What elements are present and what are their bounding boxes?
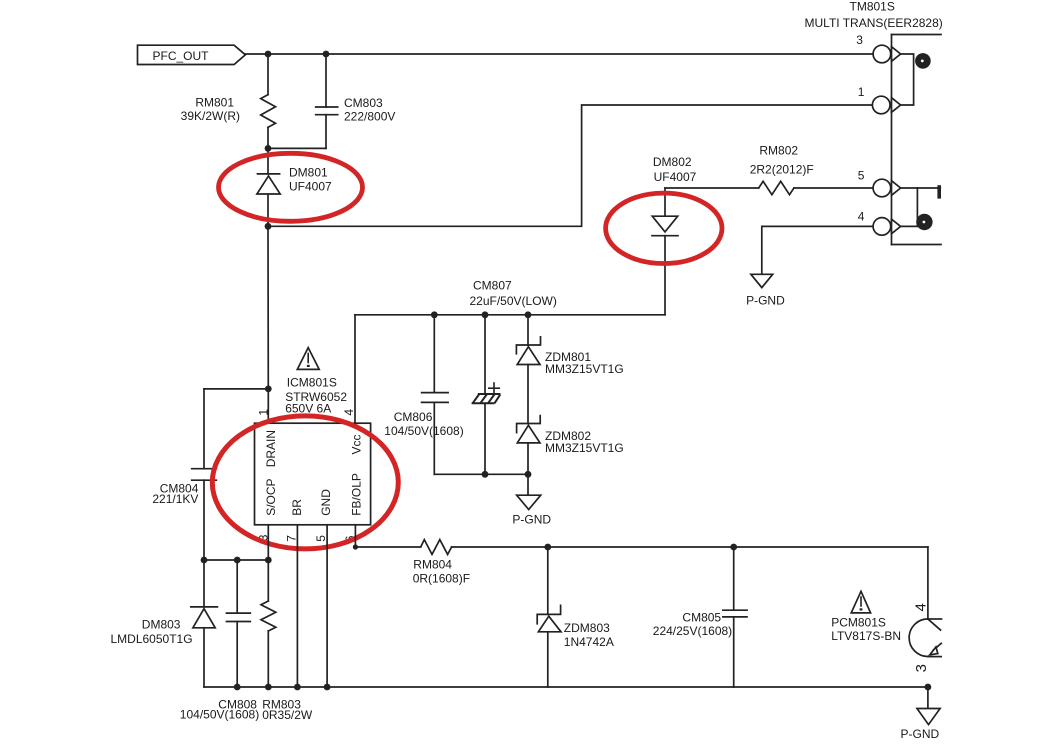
- winding polarity dot top: [915, 53, 931, 69]
- capacitor CM808: [227, 613, 251, 621]
- wire CM807 bottom lead: [484, 404, 486, 475]
- wire DM803 top lead: [203, 560, 205, 607]
- label CM805 value: [653, 611, 732, 638]
- red highlight ellipse around IC pins: [212, 416, 398, 549]
- label ZDM802 value: [545, 429, 624, 455]
- wire IC pin 5 to ground rail: [326, 525, 328, 687]
- svg-text:RM802: RM802: [759, 143, 798, 157]
- junction CM804/DM803: [201, 557, 208, 564]
- svg-text:22uF/50V(LOW): 22uF/50V(LOW): [470, 294, 557, 308]
- svg-text:ZDM803: ZDM803: [564, 621, 610, 635]
- capacitor CM805: [723, 610, 747, 617]
- transformer winding pins 5-4: [901, 188, 918, 226]
- svg-text:4: 4: [912, 603, 929, 611]
- wire RM801 bottom lead: [267, 127, 269, 148]
- junction at RM801 top: [265, 51, 272, 58]
- svg-text:CM806: CM806: [394, 410, 433, 424]
- winding terminal bar right: [937, 185, 941, 198]
- label CM807 value: [470, 279, 557, 309]
- wire CM806 top lead: [433, 315, 435, 393]
- wire ZDM803 top lead: [547, 547, 549, 614]
- svg-text:104/50V(1608): 104/50V(1608): [180, 708, 259, 722]
- junction CM807 bottom: [482, 471, 489, 478]
- resistor RM801: [261, 95, 276, 128]
- label RM802 value: [750, 143, 814, 176]
- svg-text:RM801: RM801: [195, 96, 234, 110]
- wire rail y474: [434, 473, 528, 475]
- wire RM802 to transformer pin 5: [794, 187, 873, 189]
- svg-text:4: 4: [342, 409, 356, 416]
- capacitor CM806: [422, 393, 449, 403]
- svg-text:ICM801S: ICM801S: [287, 375, 337, 389]
- svg-text:GND: GND: [319, 489, 333, 516]
- wire CM804 top lead: [203, 389, 205, 469]
- wire RM801 top lead: [267, 54, 269, 95]
- diode DM803: [191, 607, 218, 628]
- svg-text:UF4007: UF4007: [654, 170, 697, 184]
- junction below DM801: [265, 223, 272, 230]
- wire drain node to CM804: [204, 388, 268, 390]
- junction at DM801 anode node: [265, 145, 272, 152]
- wire node row y560: [204, 559, 268, 561]
- label DM802 value: [653, 155, 697, 184]
- svg-text:MM3Z15VT1G: MM3Z15VT1G: [545, 441, 624, 455]
- svg-text:TM801S: TM801S: [850, 0, 895, 13]
- wire DM802 top lead: [664, 188, 666, 216]
- wire ZDM801 to ZDM802: [527, 365, 529, 424]
- wire CM808 top lead: [236, 560, 238, 613]
- svg-text:1: 1: [858, 85, 865, 99]
- label CM804 value: [152, 482, 198, 506]
- wire IC pin 7 to ground rail: [296, 525, 298, 687]
- zener diode ZDM801: [516, 337, 540, 365]
- svg-text:224/25V(1608): 224/25V(1608): [653, 624, 732, 638]
- resistor RM803: [261, 601, 276, 631]
- red highlight ellipse around DM802: [606, 193, 722, 263]
- svg-text:CM805: CM805: [682, 611, 721, 625]
- wire ZDM802 bottom lead: [527, 443, 529, 474]
- svg-text:DM802: DM802: [653, 155, 692, 169]
- label CM806 value: [384, 410, 463, 438]
- svg-text:LMDL6050T1G: LMDL6050T1G: [111, 632, 193, 646]
- resistor RM804: [421, 540, 452, 555]
- svg-text:221/1KV: 221/1KV: [152, 492, 198, 506]
- red highlight ellipse around DM801: [219, 153, 363, 221]
- wire junction row y148: [268, 147, 326, 149]
- wire from DM801 node to transformer pin 1: [268, 105, 873, 226]
- svg-text:DRAIN: DRAIN: [264, 430, 278, 467]
- junction CM805 top: [730, 544, 737, 551]
- svg-text:FB/OLP: FB/OLP: [350, 473, 364, 516]
- junction CM807 top: [482, 311, 489, 318]
- wire RM803 bottom lead: [267, 631, 269, 687]
- svg-text:5: 5: [858, 168, 865, 182]
- capacitor CM807 polarity plus: [489, 383, 500, 393]
- label TM801S part: [805, 0, 943, 30]
- svg-text:4: 4: [858, 210, 865, 224]
- wire IC pin 4 Vcc lead up: [354, 315, 356, 423]
- transformer winding pins 3-1: [901, 54, 914, 105]
- transformer pin 1 terminal: [872, 96, 900, 114]
- label RM803 value: [262, 697, 313, 722]
- svg-text:1N4742A: 1N4742A: [564, 635, 614, 649]
- label ZDM803 value: [564, 621, 614, 649]
- transformer pin 4 terminal: [873, 218, 900, 236]
- warning symbol for ICM801S: [297, 348, 319, 370]
- label CM803 value: [344, 96, 395, 123]
- wire feedback rail to optocoupler collector: [927, 547, 929, 619]
- svg-text:LTV817S-BN: LTV817S-BN: [831, 629, 901, 643]
- junction CM808 bottom: [234, 684, 241, 691]
- svg-text:DM803: DM803: [142, 618, 181, 632]
- transformer pin 3 terminal: [873, 45, 900, 63]
- svg-text:104/50V(1608): 104/50V(1608): [384, 424, 463, 438]
- junction CM806 top: [431, 311, 438, 318]
- label DM801 value: [289, 165, 332, 193]
- wire IC pin 6 lead: [354, 525, 356, 547]
- svg-text:P-GND: P-GND: [512, 513, 551, 527]
- wire bottom ground rail: [204, 686, 928, 688]
- junction pin3/RM803: [265, 557, 272, 564]
- junction pin7 bottom: [294, 684, 301, 691]
- wire CM803 top lead: [325, 54, 327, 107]
- wire CM804 bottom lead: [203, 480, 205, 560]
- wire DM803 bottom lead: [203, 628, 205, 687]
- junction optocoupler emitter bottom: [925, 684, 932, 691]
- label DM803 value: [111, 618, 193, 646]
- net label PFC_OUT: [138, 45, 246, 64]
- wire DM801 bottom lead: [267, 194, 269, 226]
- svg-text:UF4007: UF4007: [289, 179, 332, 193]
- op-amp U1 IC body ICM801S: [255, 423, 371, 525]
- junction ZDM803 top: [544, 544, 551, 551]
- wire IC pin 3 lead: [267, 525, 269, 560]
- svg-text:S/OCP: S/OCP: [264, 478, 278, 515]
- label PCM801S part: [831, 616, 901, 644]
- svg-text:2R2(2012)F: 2R2(2012)F: [750, 163, 814, 177]
- transformer TM801S core outline: [892, 35, 942, 245]
- ground P-GND under ZDM802: [512, 495, 551, 526]
- ground P-GND bottom right: [901, 709, 941, 741]
- svg-text:P-GND: P-GND: [746, 293, 785, 307]
- wire ZDM803 bottom lead: [547, 632, 549, 687]
- svg-text:RM804: RM804: [413, 557, 452, 571]
- wire CM807 top lead: [484, 315, 486, 394]
- zener diode ZDM802: [517, 416, 541, 443]
- svg-text:BR: BR: [290, 499, 304, 516]
- winding polarity dot bottom: [916, 214, 932, 230]
- junction pin5 bottom: [324, 684, 331, 691]
- svg-text:Vcc: Vcc: [350, 434, 364, 454]
- wire DM802 bottom lead: [664, 236, 666, 315]
- junction CM808 top: [234, 557, 241, 564]
- warning symbol for PCM801S: [851, 591, 870, 613]
- svg-text:650V 6A: 650V 6A: [285, 401, 331, 415]
- wire to P-GND under ZDM802: [527, 474, 529, 495]
- wire IC pin 1 lead: [267, 389, 269, 423]
- svg-text:MM3Z15VT1G: MM3Z15VT1G: [545, 362, 624, 376]
- svg-text:1: 1: [256, 409, 270, 416]
- wire feedback rail y547: [452, 546, 928, 548]
- junction ZDM801 top: [525, 311, 532, 318]
- wire optocoupler to P-GND: [927, 687, 929, 709]
- svg-text:3: 3: [856, 33, 863, 47]
- svg-text:PFC_OUT: PFC_OUT: [153, 49, 210, 63]
- wire DM801 top lead: [267, 148, 269, 174]
- wire Vcc rail y315: [355, 314, 665, 316]
- diode DM801: [257, 174, 280, 194]
- wire top rail PFC_OUT to transformer pin 3: [245, 53, 873, 55]
- resistor RM802: [759, 181, 794, 194]
- svg-text:PCM801S: PCM801S: [831, 616, 886, 630]
- svg-text:222/800V: 222/800V: [344, 110, 395, 124]
- svg-text:3: 3: [913, 664, 930, 672]
- wire transformer pin 4 to ground: [762, 226, 873, 274]
- capacitor CM803: [316, 107, 338, 115]
- svg-text:39K/2W(R): 39K/2W(R): [181, 109, 240, 123]
- wire CM805 top lead: [733, 547, 735, 610]
- svg-text:0R35/2W: 0R35/2W: [262, 708, 313, 722]
- wire DM801 node down to IC drain: [267, 226, 269, 389]
- transformer pin 5 terminal: [873, 179, 900, 197]
- label RM801 value: [181, 96, 240, 124]
- wire DM802 to RM802: [665, 187, 759, 189]
- zener diode ZDM803: [537, 605, 561, 632]
- wire CM805 bottom lead: [733, 617, 735, 687]
- capacitor CM807: [472, 394, 501, 403]
- junction RM803 bottom: [265, 684, 272, 691]
- svg-text:DM801: DM801: [289, 165, 328, 179]
- label CM808 value: [180, 697, 259, 721]
- svg-text:7: 7: [285, 535, 299, 542]
- wire RM803 top lead: [267, 560, 269, 601]
- svg-text:CM807: CM807: [473, 279, 512, 293]
- wire CM803 bottom lead: [325, 115, 327, 149]
- label ICM801S part: [285, 375, 347, 415]
- wire CM806 bottom lead: [433, 402, 435, 474]
- svg-text:MULTI TRANS(EER2828): MULTI TRANS(EER2828): [805, 16, 943, 30]
- svg-text:5: 5: [314, 535, 328, 542]
- wire winding stub right: [917, 187, 940, 189]
- transistor Q1 optocoupler PCM801S: [909, 619, 941, 657]
- svg-text:0R(1608)F: 0R(1608)F: [413, 572, 470, 586]
- junction pin 6 corner: [353, 544, 358, 549]
- svg-text:CM803: CM803: [344, 96, 383, 110]
- junction at drain/CM804 node: [265, 386, 272, 393]
- ground P-GND under transformer pin 4: [746, 274, 785, 307]
- wire ZDM801 top lead: [527, 315, 529, 345]
- label ZDM801 value: [545, 350, 624, 376]
- junction ZDM802 bottom: [525, 471, 532, 478]
- svg-text:P-GND: P-GND: [901, 727, 940, 741]
- wire pin6 to RM804: [355, 546, 420, 548]
- capacitor CM804: [192, 469, 217, 481]
- diode DM802: [652, 216, 678, 236]
- label RM804 value: [413, 557, 470, 585]
- junction at CM803 top: [323, 51, 330, 58]
- wire CM808 bottom lead: [236, 622, 238, 688]
